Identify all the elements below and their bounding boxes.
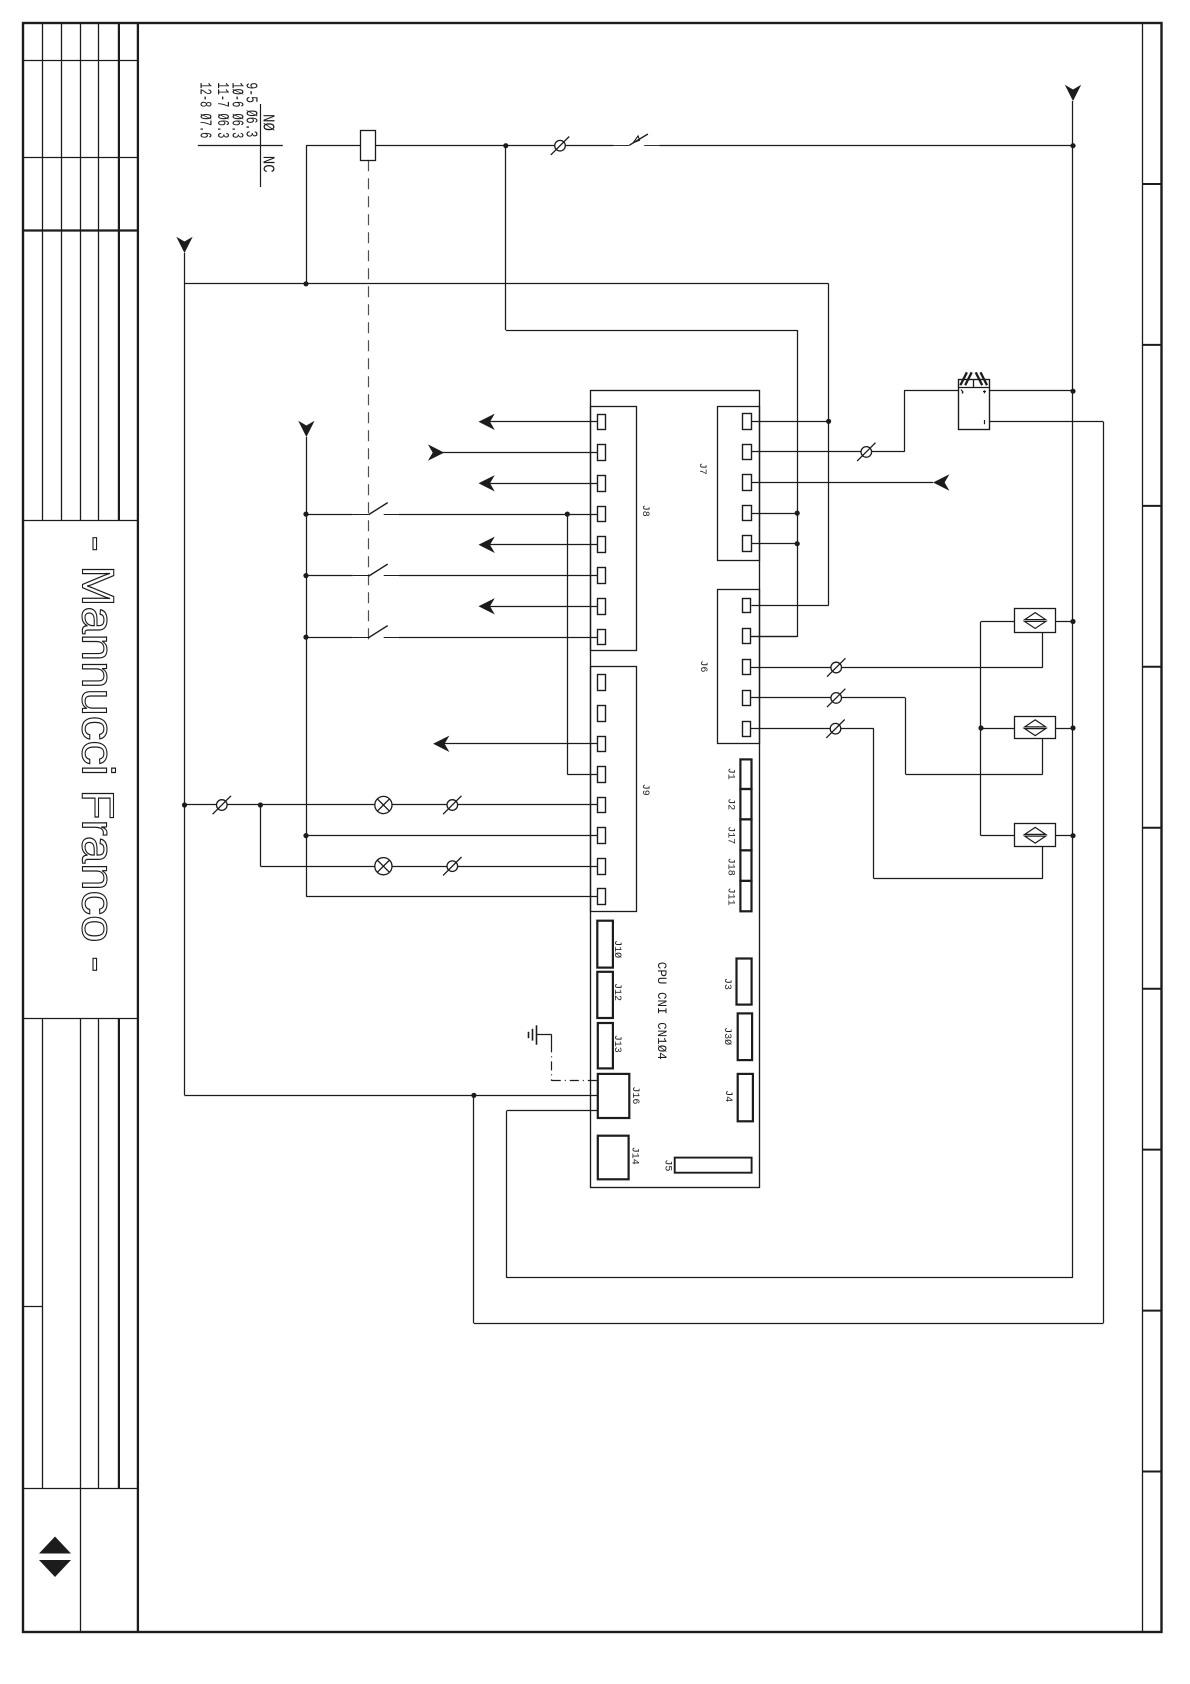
svg-text:- Mannucci Franco -: - Mannucci Franco - (72, 536, 123, 973)
svg-text:12-8 Ø7.6: 12-8 Ø7.6 (195, 82, 214, 138)
svg-text:J17: J17 (724, 826, 735, 844)
svg-text:J6: J6 (697, 660, 708, 672)
svg-text:J1Ø: J1Ø (611, 940, 623, 958)
svg-text:NC: NC (258, 156, 277, 173)
svg-text:J14: J14 (628, 1147, 639, 1165)
svg-text:J12: J12 (611, 983, 622, 1001)
svg-text:J13: J13 (611, 1035, 622, 1053)
svg-text:11-7 Ø6.3: 11-7 Ø6.3 (212, 82, 231, 138)
svg-text:J3: J3 (721, 978, 732, 990)
svg-text:J4: J4 (722, 1090, 733, 1102)
svg-text:J16: J16 (629, 1086, 640, 1104)
svg-text:J7: J7 (696, 463, 707, 475)
svg-text:J2: J2 (724, 798, 735, 810)
svg-text:J5: J5 (662, 1159, 673, 1171)
svg-text:J18: J18 (724, 858, 735, 876)
svg-text:CPU CNI CN1Ø4: CPU CNI CN1Ø4 (654, 962, 668, 1060)
svg-text:J9: J9 (639, 784, 650, 796)
svg-text:J1: J1 (724, 768, 735, 780)
svg-text:J11: J11 (724, 888, 735, 906)
svg-text:J8: J8 (639, 505, 650, 517)
svg-text:J3Ø: J3Ø (721, 1027, 733, 1045)
